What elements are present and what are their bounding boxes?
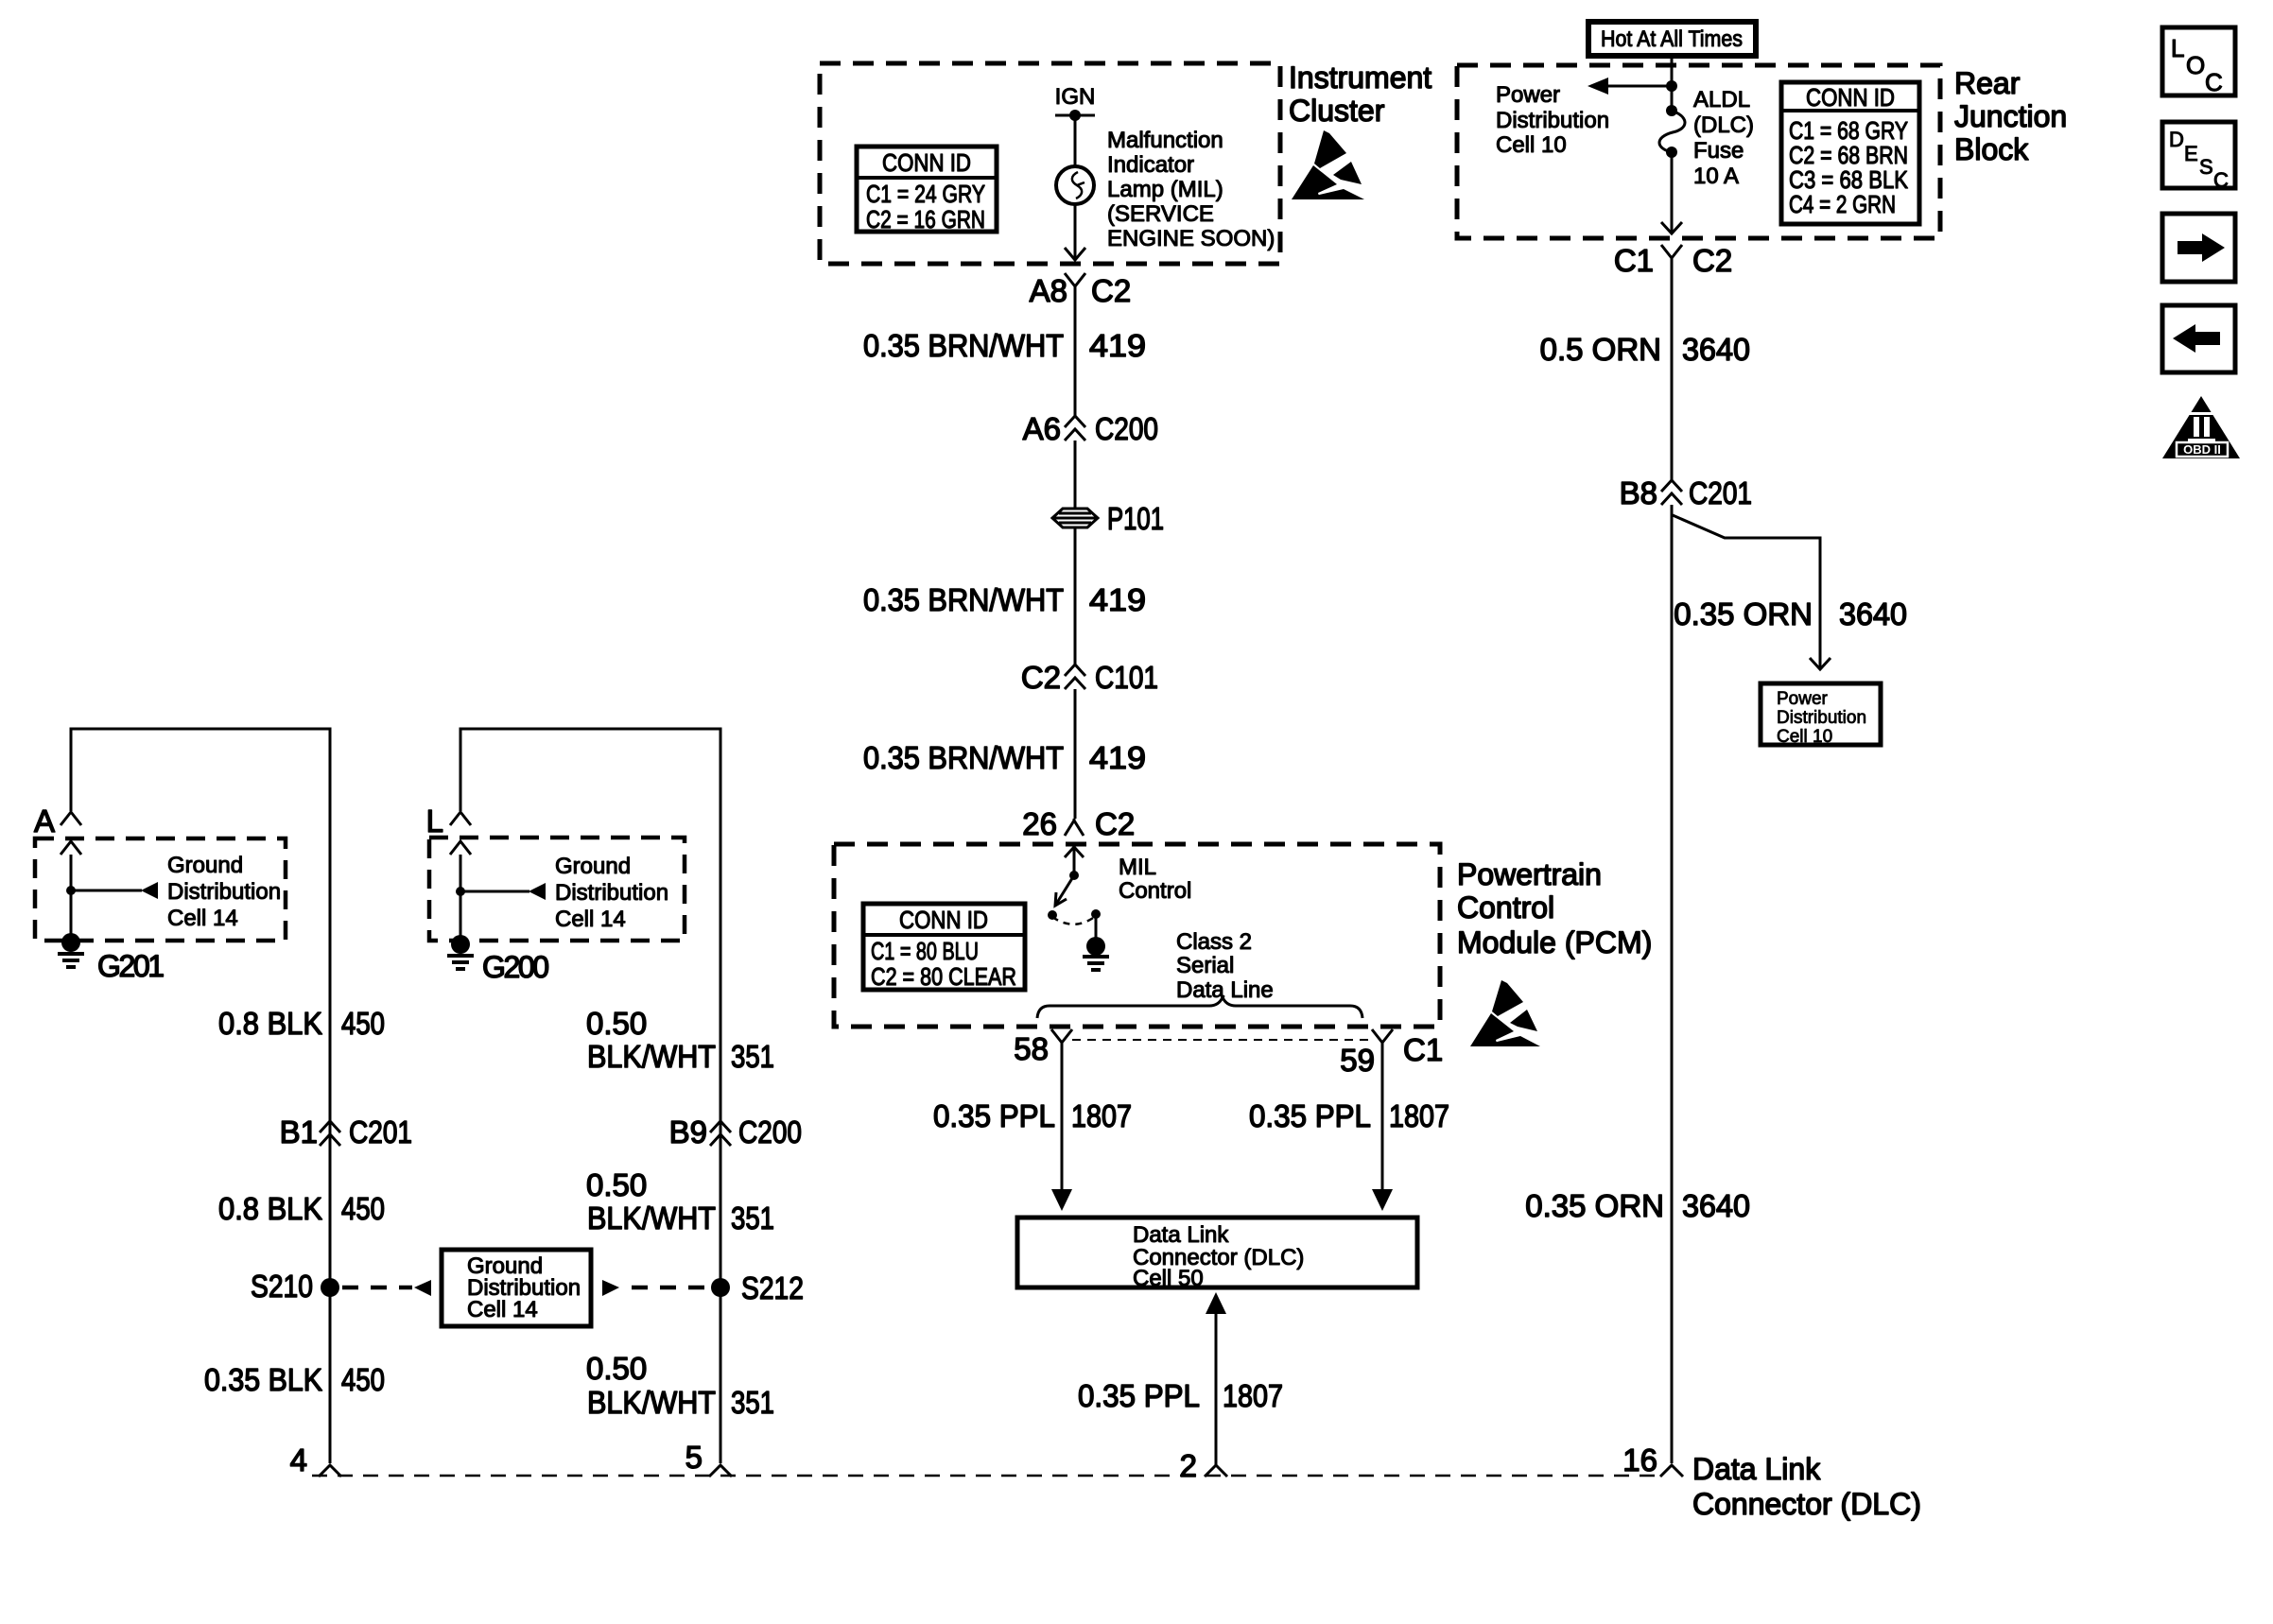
svg-text:0.35 PPL: 0.35 PPL xyxy=(933,1098,1055,1133)
wire 419 segment 2 xyxy=(1074,441,1077,665)
svg-text:C1: C1 xyxy=(1403,1032,1443,1067)
svg-text:0.8 BLK: 0.8 BLK xyxy=(218,1191,322,1226)
svg-text:1807: 1807 xyxy=(1071,1098,1132,1133)
connector C201 pin B1 xyxy=(320,1121,340,1146)
splice S210 xyxy=(321,1278,339,1297)
svg-text:Serial: Serial xyxy=(1176,953,1234,978)
svg-text:C1 = 24 GRY: C1 = 24 GRY xyxy=(866,180,985,208)
node junction at fuse top xyxy=(1666,80,1677,92)
svg-text:0.35 BRN/WHT: 0.35 BRN/WHT xyxy=(863,328,1064,363)
svg-text:Distribution: Distribution xyxy=(1496,108,1609,133)
svg-text:C4 = 2 GRN: C4 = 2 GRN xyxy=(1789,190,1896,218)
icon DESC xyxy=(2162,122,2235,188)
svg-text:Block: Block xyxy=(1954,132,2029,166)
svg-text:BLK/WHT: BLK/WHT xyxy=(587,1039,716,1074)
svg-text:S210: S210 xyxy=(251,1269,313,1304)
conn id box (RJB) xyxy=(1781,82,1919,224)
svg-text:Cell 50: Cell 50 xyxy=(1133,1266,1204,1291)
branch wire to power distribution xyxy=(1673,515,1820,667)
conn id box (PCM) xyxy=(863,904,1025,990)
svg-text:MIL: MIL xyxy=(1119,855,1156,880)
svg-text:C: C xyxy=(2213,168,2229,192)
connector feet pin 16 xyxy=(1660,1465,1683,1477)
svg-text:0.35 BRN/WHT: 0.35 BRN/WHT xyxy=(863,582,1064,617)
ground G201 xyxy=(61,933,80,952)
svg-text:B9: B9 xyxy=(669,1114,707,1149)
ESD symbol (PCM) xyxy=(1470,980,1540,1046)
svg-text:G201: G201 xyxy=(97,949,165,983)
svg-text:S: S xyxy=(2199,155,2213,179)
splice P101 (grommet) xyxy=(1052,509,1098,527)
svg-text:Ground: Ground xyxy=(167,853,243,878)
svg-text:Cell 14: Cell 14 xyxy=(167,906,238,931)
svg-text:C201: C201 xyxy=(349,1114,412,1149)
dashed reference link S210 to cell box xyxy=(342,1286,412,1290)
svg-text:Connector (DLC): Connector (DLC) xyxy=(1692,1487,1921,1521)
arrow to power distribution cell 10 xyxy=(1588,78,1608,95)
ground distribution cell 14 box (G201, dashed) xyxy=(35,838,286,941)
connector feet pin 4 xyxy=(319,1465,341,1477)
svg-text:A: A xyxy=(34,803,55,838)
svg-text:0.5 ORN: 0.5 ORN xyxy=(1540,332,1661,367)
switch contact right xyxy=(1091,909,1101,919)
wire to ground G201 xyxy=(70,855,73,942)
ground distribution cell 14 box (solid) xyxy=(442,1250,591,1326)
svg-text:2: 2 xyxy=(1180,1448,1197,1483)
svg-text:450: 450 xyxy=(341,1191,385,1226)
svg-text:C101: C101 xyxy=(1095,660,1158,695)
wire 1807 right xyxy=(1381,1043,1384,1190)
svg-text:BLK/WHT: BLK/WHT xyxy=(587,1385,716,1420)
svg-text:0.35 BLK: 0.35 BLK xyxy=(204,1362,322,1397)
wire 419 segment 1 xyxy=(1074,286,1077,416)
connector C201 pin B8 xyxy=(1661,480,1682,505)
svg-text:Junction: Junction xyxy=(1954,99,2067,133)
off-page triangle (G201 cell reference) xyxy=(141,882,158,899)
power distribution cell 10 box xyxy=(1761,683,1881,745)
icon arrow right xyxy=(2162,214,2235,282)
svg-text:IGN: IGN xyxy=(1055,84,1096,110)
DLC bus dashed line xyxy=(312,1475,1661,1477)
svg-text:G200: G200 xyxy=(482,950,549,984)
svg-text:Power: Power xyxy=(1777,689,1829,709)
svg-text:Cell 10: Cell 10 xyxy=(1777,727,1832,747)
dashed reference link cell box to S212 xyxy=(632,1286,707,1290)
node junction on G200 wire xyxy=(456,887,465,896)
svg-text:0.35 ORN: 0.35 ORN xyxy=(1674,596,1813,631)
svg-text:0.50: 0.50 xyxy=(586,1167,647,1202)
svg-text:4: 4 xyxy=(290,1443,307,1477)
svg-text:B1: B1 xyxy=(280,1114,318,1149)
svg-text:BLK/WHT: BLK/WHT xyxy=(587,1201,716,1235)
connector half inside G200 box xyxy=(450,841,471,855)
connector half inside G201 box xyxy=(61,841,81,855)
off-page triangle (left of cell box) xyxy=(414,1280,431,1296)
svg-text:Ground: Ground xyxy=(555,854,631,879)
svg-text:C: C xyxy=(2205,68,2223,96)
svg-text:Lamp (MIL): Lamp (MIL) xyxy=(1107,177,1223,202)
svg-text:Instrument: Instrument xyxy=(1289,60,1431,95)
node junction on G201 wire xyxy=(66,886,76,895)
svg-text:D: D xyxy=(2169,128,2184,151)
svg-text:3640: 3640 xyxy=(1682,332,1750,367)
svg-text:0.35 PPL: 0.35 PPL xyxy=(1078,1378,1200,1413)
off-page triangle (right of cell box) xyxy=(602,1280,619,1296)
dashed travel arc xyxy=(1052,916,1096,924)
svg-text:(SERVICE: (SERVICE xyxy=(1107,201,1214,227)
svg-text:L: L xyxy=(426,803,443,838)
svg-text:59: 59 xyxy=(1340,1043,1375,1078)
wire reference stub (G201) xyxy=(71,890,142,892)
svg-text:B8: B8 xyxy=(1620,475,1657,510)
svg-text:OBD II: OBD II xyxy=(2183,442,2221,457)
svg-text:351: 351 xyxy=(731,1039,774,1074)
connector C2 pin A8 xyxy=(1065,273,1085,289)
svg-text:Indicator: Indicator xyxy=(1107,152,1194,178)
svg-text:A8: A8 xyxy=(1030,273,1067,308)
powertrain control module box (dashed) xyxy=(834,844,1440,1027)
svg-text:0.8 BLK: 0.8 BLK xyxy=(218,1006,322,1041)
svg-text:450: 450 xyxy=(341,1006,385,1041)
dashed link pin58 to pin59 xyxy=(1072,1039,1371,1041)
svg-text:0.50: 0.50 xyxy=(586,1351,647,1386)
svg-text:C1 = 80 BLU: C1 = 80 BLU xyxy=(871,937,979,965)
wire to ground G200 xyxy=(460,855,462,944)
MIL control switch arrow to pin 26 xyxy=(1065,847,1084,872)
connector C200 pin B9 xyxy=(710,1121,731,1146)
connector C2 pin 26 xyxy=(1065,819,1084,836)
wire contact to ground splice xyxy=(1095,914,1098,941)
icon LOC xyxy=(2162,27,2235,95)
connector C1 C2 below RJB xyxy=(1661,245,1682,261)
svg-text:O: O xyxy=(2186,51,2205,79)
splice S212 xyxy=(711,1278,730,1297)
svg-text:Hot At All Times: Hot At All Times xyxy=(1601,26,1743,52)
fuse ALDL (DLC) 10A xyxy=(1666,105,1677,116)
svg-text:16: 16 xyxy=(1622,1443,1657,1477)
connector feet pin 2 xyxy=(1205,1465,1227,1477)
wire ground circuit L (top run and 351 drop) xyxy=(460,729,720,1463)
switch pivot xyxy=(1069,871,1079,880)
wire ground circuit A (top run and 450 drop) xyxy=(71,729,330,1463)
svg-text:Cluster: Cluster xyxy=(1289,94,1385,128)
svg-text:419: 419 xyxy=(1089,328,1146,363)
icon OBD II triangle xyxy=(2162,396,2240,458)
svg-text:E: E xyxy=(2184,142,2198,165)
svg-text:CONN ID: CONN ID xyxy=(882,148,971,177)
wire 1807 left xyxy=(1061,1043,1064,1190)
svg-text:0.50: 0.50 xyxy=(586,1006,647,1041)
svg-text:Fuse: Fuse xyxy=(1693,138,1744,164)
svg-text:(DLC): (DLC) xyxy=(1693,112,1754,138)
svg-text:ALDL: ALDL xyxy=(1693,87,1750,112)
svg-text:1807: 1807 xyxy=(1389,1098,1449,1133)
splice dot at PCM ground xyxy=(1086,937,1105,956)
connector C200 pin A6 xyxy=(1065,416,1085,441)
svg-text:Power: Power xyxy=(1496,82,1560,108)
svg-text:Distribution: Distribution xyxy=(555,880,668,906)
ground G200 xyxy=(451,935,470,954)
wire 3640 upper xyxy=(1671,258,1674,480)
svg-text:0.35 PPL: 0.35 PPL xyxy=(1249,1098,1371,1133)
svg-text:C2: C2 xyxy=(1091,273,1131,308)
svg-text:351: 351 xyxy=(731,1201,774,1235)
svg-text:C2 = 16 GRN: C2 = 16 GRN xyxy=(866,205,985,233)
svg-text:Rear: Rear xyxy=(1954,66,2021,100)
svg-text:Class 2: Class 2 xyxy=(1176,929,1252,955)
conn id box (instrument cluster) xyxy=(857,147,997,232)
connector feet pin 5 xyxy=(709,1465,732,1477)
svg-text:Distribution: Distribution xyxy=(167,879,281,905)
off-page triangle (G200 cell reference) xyxy=(529,883,546,900)
hot at all times box xyxy=(1588,22,1756,56)
rear junction block box (dashed) xyxy=(1457,65,1940,238)
svg-text:Control: Control xyxy=(1457,890,1554,924)
wire IGN to lamp xyxy=(1074,115,1077,166)
svg-text:Cell 10: Cell 10 xyxy=(1496,132,1567,158)
ESD symbol (instrument cluster) xyxy=(1292,130,1364,199)
svg-text:1807: 1807 xyxy=(1223,1378,1283,1413)
switch contact left xyxy=(1048,910,1057,920)
svg-text:419: 419 xyxy=(1089,582,1146,617)
svg-text:Data Link: Data Link xyxy=(1692,1452,1821,1486)
svg-text:C2 = 80 CLEAR: C2 = 80 CLEAR xyxy=(871,962,1016,991)
icon arrow left xyxy=(2162,305,2235,372)
svg-text:58: 58 xyxy=(1014,1031,1049,1066)
svg-text:351: 351 xyxy=(731,1385,774,1420)
connector half at node A xyxy=(61,812,81,825)
svg-text:Control: Control xyxy=(1119,878,1191,904)
svg-text:C2: C2 xyxy=(1021,660,1061,695)
svg-text:3640: 3640 xyxy=(1682,1188,1750,1223)
switch blade xyxy=(1055,875,1074,906)
connector C1 pin 59 xyxy=(1372,1029,1393,1045)
svg-text:Malfunction: Malfunction xyxy=(1107,128,1223,153)
brace class 2 lines xyxy=(1037,997,1362,1018)
wire 3640 main down to pin 16 xyxy=(1671,505,1674,1463)
svg-text:L: L xyxy=(2171,34,2184,62)
svg-text:Powertrain: Powertrain xyxy=(1457,857,1602,891)
svg-text:0.35 ORN: 0.35 ORN xyxy=(1525,1188,1664,1223)
svg-text:C200: C200 xyxy=(738,1114,802,1149)
connector C101 pin C2 xyxy=(1065,665,1085,689)
connector C1 pin 58 xyxy=(1051,1029,1072,1045)
wire 419 segment 3 xyxy=(1074,689,1077,819)
instrument cluster box (dashed) xyxy=(820,63,1280,264)
ground (PCM internal) xyxy=(1083,957,1109,970)
ground distribution cell 14 box (G200, dashed) xyxy=(429,838,685,941)
svg-text:C200: C200 xyxy=(1095,411,1158,446)
svg-text:ENGINE SOON): ENGINE SOON) xyxy=(1107,226,1275,251)
svg-text:CONN ID: CONN ID xyxy=(1806,83,1895,112)
svg-text:10 A: 10 A xyxy=(1693,164,1739,189)
svg-text:5: 5 xyxy=(685,1440,703,1475)
svg-text:C1: C1 xyxy=(1614,243,1654,278)
svg-text:419: 419 xyxy=(1089,740,1146,775)
data link connector cell 50 box xyxy=(1017,1218,1417,1287)
svg-text:Cell 14: Cell 14 xyxy=(467,1297,538,1322)
wire reference stub (G200) xyxy=(460,890,529,893)
svg-text:Data Link: Data Link xyxy=(1133,1222,1229,1248)
wire power distribution reference xyxy=(1607,85,1672,88)
wire lamp to pin A8 with arrow xyxy=(1074,204,1077,259)
svg-text:C2: C2 xyxy=(1095,806,1135,841)
wire hot feed into RJB xyxy=(1671,56,1674,111)
wire pin 2 with up arrow xyxy=(1215,1313,1218,1465)
svg-text:450: 450 xyxy=(341,1362,385,1397)
svg-text:CONN ID: CONN ID xyxy=(899,906,988,934)
svg-text:S212: S212 xyxy=(741,1270,804,1305)
svg-text:0.35 BRN/WHT: 0.35 BRN/WHT xyxy=(863,740,1064,775)
svg-text:C201: C201 xyxy=(1689,475,1752,510)
svg-text:A6: A6 xyxy=(1023,411,1061,446)
svg-text:26: 26 xyxy=(1022,806,1057,841)
wire fuse to RJB edge with arrow xyxy=(1671,152,1674,233)
svg-text:P101: P101 xyxy=(1107,501,1164,536)
svg-text:Cell 14: Cell 14 xyxy=(555,907,626,932)
svg-text:3640: 3640 xyxy=(1839,596,1907,631)
connector half at node L xyxy=(450,812,471,825)
svg-text:Distribution: Distribution xyxy=(1777,708,1866,728)
svg-text:Module (PCM): Module (PCM) xyxy=(1457,925,1652,959)
svg-text:C2: C2 xyxy=(1692,243,1732,278)
lamp MIL xyxy=(1056,166,1094,204)
